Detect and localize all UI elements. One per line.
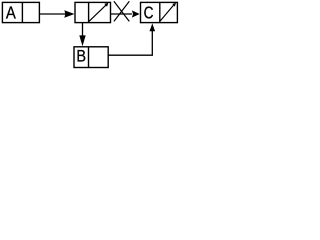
wire mid down to B [82,23,84,38]
wire A to mid node [39,13,66,15]
null slash in C [160,5,174,21]
slash arrowhead [104,3,108,7]
arrowhead into C [132,10,140,17]
wire mid to C [111,13,133,15]
slash arrowhead C [172,3,176,7]
background [0,0,181,71]
svg-text:A: A [6,3,16,22]
svg-text:B: B [76,48,86,66]
node box B [74,47,108,68]
arrowhead into C bottom [150,23,156,31]
node box A [2,2,39,22]
X cross-out over wire [114,1,129,21]
wire B right then up to C [108,30,152,55]
null slash in mid node [89,5,107,22]
node box C [141,2,178,22]
svg-text:C: C [144,4,154,23]
node box mid [75,2,111,22]
arrowhead into mid node [64,10,74,17]
arrowhead into B top [79,35,85,46]
